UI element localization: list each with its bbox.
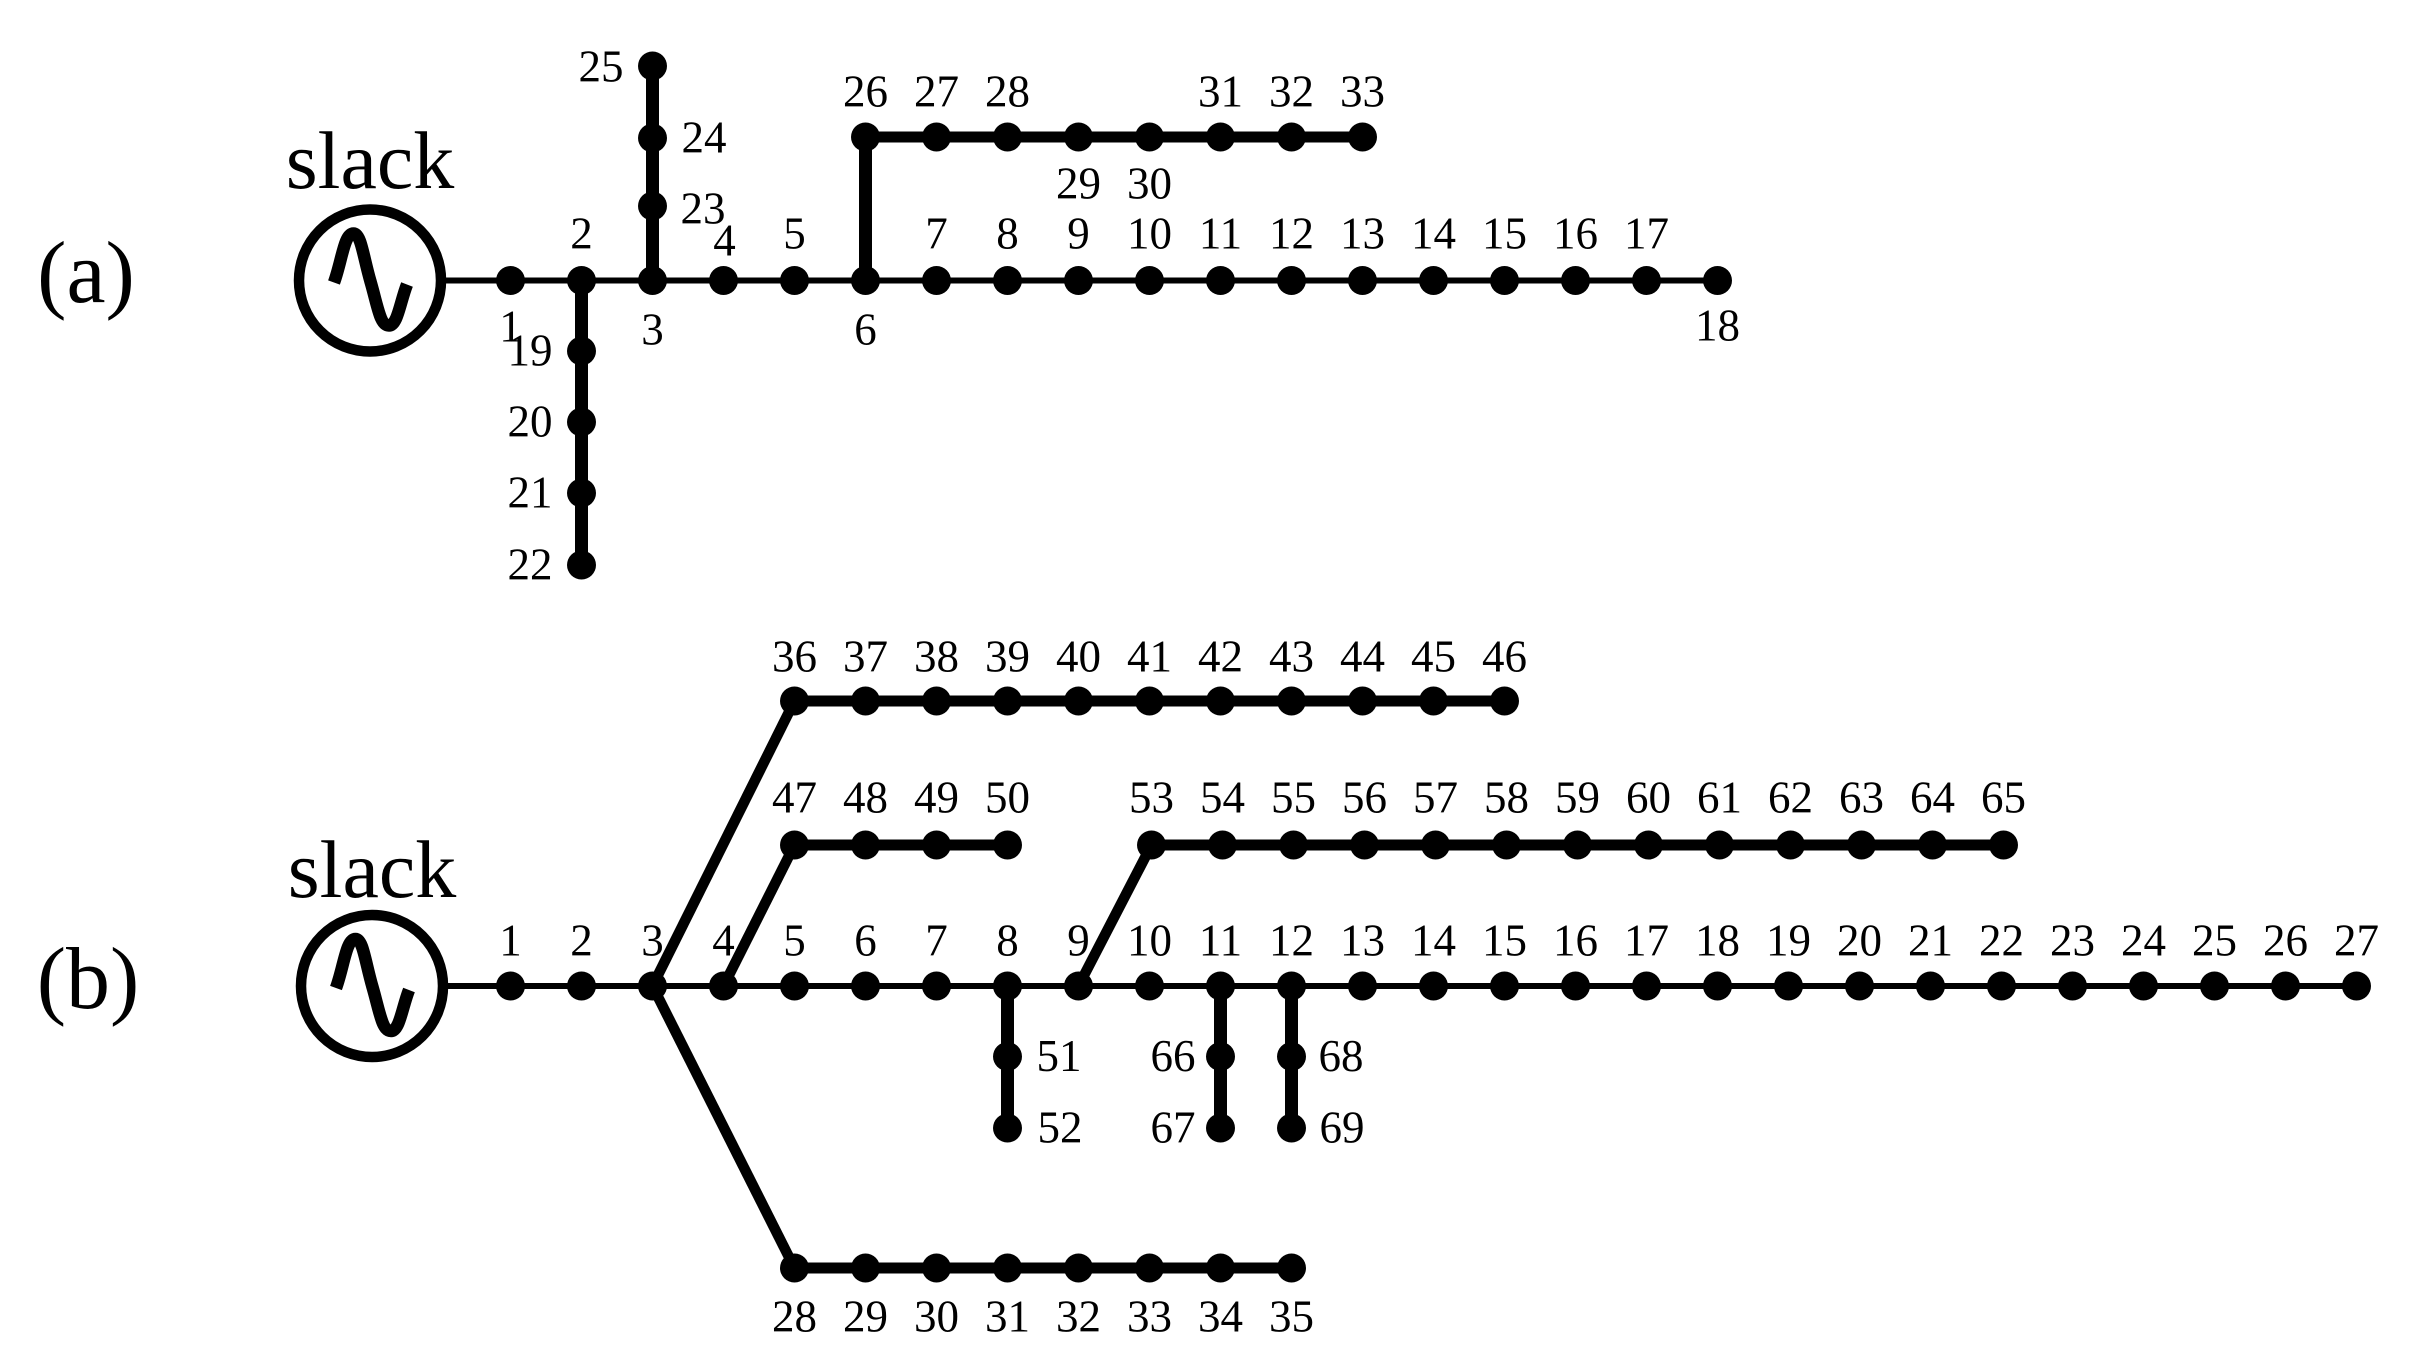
svg-text:6: 6 — [854, 305, 877, 355]
node b49 — [922, 831, 951, 860]
svg-text:65: 65 — [1981, 773, 2026, 823]
svg-text:44: 44 — [1340, 632, 1385, 682]
node b40 — [1064, 687, 1093, 716]
svg-text:19: 19 — [1766, 916, 1811, 966]
svg-text:9: 9 — [1067, 916, 1090, 966]
svg-text:15: 15 — [1482, 209, 1527, 259]
node b53 — [1137, 831, 1166, 860]
svg-text:17: 17 — [1624, 209, 1669, 259]
svg-text:5: 5 — [783, 209, 806, 259]
node b5 — [780, 972, 809, 1001]
node b21 — [1916, 972, 1945, 1001]
svg-text:32: 32 — [1269, 67, 1314, 117]
svg-text:12: 12 — [1269, 916, 1314, 966]
svg-text:37: 37 — [843, 632, 888, 682]
svg-text:slack: slack — [288, 824, 456, 915]
node a2 — [567, 266, 596, 295]
svg-text:63: 63 — [1839, 773, 1884, 823]
node a31 — [1206, 123, 1235, 152]
svg-text:12: 12 — [1269, 209, 1314, 259]
node b58 — [1492, 831, 1521, 860]
node a12 — [1277, 266, 1306, 295]
wire branch 3 up to 25 (a) — [646, 66, 659, 281]
node b68 — [1277, 1042, 1306, 1071]
svg-text:69: 69 — [1320, 1103, 1365, 1153]
svg-text:5: 5 — [783, 916, 806, 966]
wire stub 12-68-69 (b) — [1285, 986, 1298, 1128]
svg-text:16: 16 — [1553, 209, 1598, 259]
node b31 — [993, 1254, 1022, 1283]
svg-text:34: 34 — [1198, 1292, 1243, 1342]
svg-text:47: 47 — [772, 773, 817, 823]
svg-text:25: 25 — [579, 42, 624, 92]
svg-text:60: 60 — [1626, 773, 1671, 823]
node b35 — [1277, 1254, 1306, 1283]
node b26 — [2271, 972, 2300, 1001]
svg-text:38: 38 — [914, 632, 959, 682]
svg-text:58: 58 — [1484, 773, 1529, 823]
node a9 — [1064, 266, 1093, 295]
svg-text:27: 27 — [914, 67, 959, 117]
svg-text:67: 67 — [1151, 1103, 1196, 1153]
node b54 — [1208, 831, 1237, 860]
svg-text:13: 13 — [1340, 916, 1385, 966]
svg-text:45: 45 — [1411, 632, 1456, 682]
wire node 3 to node 36 diagonal (b) — [653, 701, 795, 986]
svg-text:1: 1 — [499, 916, 522, 966]
svg-text:21: 21 — [508, 468, 553, 518]
node b57 — [1421, 831, 1450, 860]
slack source (a) — [299, 210, 441, 352]
node a23 — [638, 192, 667, 221]
wire main feeder 1-18 (a) — [511, 278, 1718, 284]
node b43 — [1277, 687, 1306, 716]
svg-text:41: 41 — [1127, 632, 1172, 682]
svg-text:29: 29 — [843, 1292, 888, 1342]
node b9 — [1064, 972, 1093, 1001]
svg-text:22: 22 — [508, 540, 553, 590]
svg-text:39: 39 — [985, 632, 1030, 682]
node b30 — [922, 1254, 951, 1283]
node a15 — [1490, 266, 1519, 295]
node a16 — [1561, 266, 1590, 295]
svg-text:slack: slack — [286, 115, 454, 206]
node b12 — [1277, 972, 1306, 1001]
wire node 9 to node 53 diagonal (b) — [1079, 845, 1152, 986]
svg-text:11: 11 — [1199, 209, 1242, 259]
svg-text:28: 28 — [772, 1292, 817, 1342]
svg-text:22: 22 — [1979, 916, 2024, 966]
svg-text:14: 14 — [1411, 209, 1456, 259]
node b64 — [1918, 831, 1947, 860]
node b23 — [2058, 972, 2087, 1001]
node a3 — [638, 266, 667, 295]
node b55 — [1279, 831, 1308, 860]
wire branch 28-35 (b) — [795, 1263, 1292, 1274]
node a7 — [922, 266, 951, 295]
node b13 — [1348, 972, 1377, 1001]
svg-text:20: 20 — [508, 397, 553, 447]
node b36 — [780, 687, 809, 716]
node b63 — [1847, 831, 1876, 860]
node b18 — [1703, 972, 1732, 1001]
svg-text:(a): (a) — [37, 225, 135, 322]
node b67 — [1206, 1114, 1235, 1143]
node b15 — [1490, 972, 1519, 1001]
node b22 — [1987, 972, 2016, 1001]
node b7 — [922, 972, 951, 1001]
node a28 — [993, 123, 1022, 152]
node b27 — [2342, 972, 2371, 1001]
node b11 — [1206, 972, 1235, 1001]
node b45 — [1419, 687, 1448, 716]
svg-text:24: 24 — [682, 113, 727, 163]
svg-text:31: 31 — [985, 1292, 1030, 1342]
svg-text:59: 59 — [1555, 773, 1600, 823]
node a10 — [1135, 266, 1164, 295]
node b6 — [851, 972, 880, 1001]
wire node 4 to node 47 diagonal (b) — [724, 845, 795, 986]
svg-text:27: 27 — [2334, 916, 2379, 966]
svg-text:16: 16 — [1553, 916, 1598, 966]
svg-text:25: 25 — [2192, 916, 2237, 966]
wire branch 2 down to 22 (a) — [575, 281, 588, 566]
svg-text:2: 2 — [570, 209, 593, 259]
svg-text:4: 4 — [712, 916, 735, 966]
wire branch 53-65 (b) — [1150, 840, 2002, 851]
svg-text:26: 26 — [2263, 916, 2308, 966]
svg-text:35: 35 — [1269, 1292, 1314, 1342]
node a18 — [1703, 266, 1732, 295]
node a19 — [567, 337, 596, 366]
svg-text:2: 2 — [570, 916, 593, 966]
svg-text:24: 24 — [2121, 916, 2166, 966]
node a17 — [1632, 266, 1661, 295]
svg-text:61: 61 — [1697, 773, 1742, 823]
node b65 — [1989, 831, 2018, 860]
svg-text:64: 64 — [1910, 773, 1955, 823]
node b29 — [851, 1254, 880, 1283]
node a27 — [922, 123, 951, 152]
svg-text:13: 13 — [1340, 209, 1385, 259]
node a5 — [780, 266, 809, 295]
node b2 — [567, 972, 596, 1001]
node b24 — [2129, 972, 2158, 1001]
svg-text:11: 11 — [1199, 916, 1242, 966]
node b61 — [1705, 831, 1734, 860]
svg-text:19: 19 — [508, 326, 553, 376]
svg-text:3: 3 — [641, 916, 664, 966]
svg-text:14: 14 — [1411, 916, 1456, 966]
node a24 — [638, 124, 667, 153]
node b32 — [1064, 1254, 1093, 1283]
svg-text:28: 28 — [985, 67, 1030, 117]
node b41 — [1135, 687, 1164, 716]
svg-text:57: 57 — [1413, 773, 1458, 823]
node b66 — [1206, 1042, 1235, 1071]
wire stub 8-51-52 (b) — [1001, 986, 1014, 1128]
svg-text:7: 7 — [925, 209, 948, 259]
svg-text:18: 18 — [1695, 916, 1740, 966]
node b10 — [1135, 972, 1164, 1001]
wire slack to node 1 (b) — [443, 983, 511, 989]
node a6 — [851, 266, 880, 295]
svg-text:50: 50 — [985, 773, 1030, 823]
node b46 — [1490, 687, 1519, 716]
svg-text:31: 31 — [1198, 67, 1243, 117]
wire branch 6 up to 26 (a) — [859, 137, 872, 281]
svg-text:33: 33 — [1340, 67, 1385, 117]
svg-text:10: 10 — [1127, 916, 1172, 966]
node b42 — [1206, 687, 1235, 716]
node b48 — [851, 831, 880, 860]
svg-text:43: 43 — [1269, 632, 1314, 682]
node a14 — [1419, 266, 1448, 295]
wire main feeder 1-27 (b) — [511, 983, 2357, 989]
node b28 — [780, 1254, 809, 1283]
svg-text:8: 8 — [996, 916, 1019, 966]
svg-text:49: 49 — [914, 773, 959, 823]
svg-text:66: 66 — [1151, 1031, 1196, 1081]
node b39 — [993, 687, 1022, 716]
node b60 — [1634, 831, 1663, 860]
node a32 — [1277, 123, 1306, 152]
svg-text:20: 20 — [1837, 916, 1882, 966]
node b16 — [1561, 972, 1590, 1001]
svg-text:30: 30 — [914, 1292, 959, 1342]
node b34 — [1206, 1254, 1235, 1283]
node a20 — [567, 408, 596, 437]
svg-text:55: 55 — [1271, 773, 1316, 823]
svg-text:23: 23 — [2050, 916, 2095, 966]
node b37 — [851, 687, 880, 716]
svg-text:(b): (b) — [37, 931, 140, 1028]
svg-text:52: 52 — [1038, 1103, 1083, 1153]
svg-text:40: 40 — [1056, 632, 1101, 682]
node b4 — [709, 972, 738, 1001]
node a13 — [1348, 266, 1377, 295]
svg-text:53: 53 — [1129, 773, 1174, 823]
svg-text:46: 46 — [1482, 632, 1527, 682]
node b44 — [1348, 687, 1377, 716]
node a8 — [993, 266, 1022, 295]
node a33 — [1348, 123, 1377, 152]
node b33 — [1135, 1254, 1164, 1283]
node b8 — [993, 972, 1022, 1001]
node b50 — [993, 831, 1022, 860]
node a29 — [1064, 123, 1093, 152]
svg-text:3: 3 — [641, 305, 664, 355]
svg-text:15: 15 — [1482, 916, 1527, 966]
svg-text:48: 48 — [843, 773, 888, 823]
node a30 — [1135, 123, 1164, 152]
svg-text:62: 62 — [1768, 773, 1813, 823]
svg-text:18: 18 — [1695, 301, 1740, 351]
wire node 3 to node 28 diagonal (b) — [653, 986, 795, 1268]
node b38 — [922, 687, 951, 716]
svg-text:32: 32 — [1056, 1292, 1101, 1342]
wire branch 26-33 (a) — [866, 132, 1363, 143]
wire stub 11-66-67 (b) — [1214, 986, 1227, 1128]
node b47 — [780, 831, 809, 860]
node b19 — [1774, 972, 1803, 1001]
svg-text:54: 54 — [1200, 773, 1245, 823]
node a4 — [709, 266, 738, 295]
svg-text:21: 21 — [1908, 916, 1953, 966]
node a25 — [638, 52, 667, 81]
node b25 — [2200, 972, 2229, 1001]
svg-text:17: 17 — [1624, 916, 1669, 966]
wire branch 36-46 (b) — [795, 696, 1505, 707]
node b62 — [1776, 831, 1805, 860]
svg-text:10: 10 — [1127, 209, 1172, 259]
svg-text:51: 51 — [1037, 1031, 1082, 1081]
node b51 — [993, 1042, 1022, 1071]
node b52 — [993, 1114, 1022, 1143]
svg-text:68: 68 — [1319, 1031, 1364, 1081]
svg-text:23: 23 — [681, 184, 726, 234]
svg-text:30: 30 — [1127, 159, 1172, 209]
svg-text:6: 6 — [854, 916, 877, 966]
svg-text:36: 36 — [772, 632, 817, 682]
node b59 — [1563, 831, 1592, 860]
svg-text:9: 9 — [1067, 209, 1090, 259]
node a1 — [496, 266, 525, 295]
node a21 — [567, 479, 596, 508]
wire slack to node 1 (a) — [441, 278, 511, 284]
node a11 — [1206, 266, 1235, 295]
node b17 — [1632, 972, 1661, 1001]
svg-text:42: 42 — [1198, 632, 1243, 682]
svg-text:26: 26 — [843, 67, 888, 117]
svg-text:29: 29 — [1056, 159, 1101, 209]
node b69 — [1277, 1114, 1306, 1143]
node b56 — [1350, 831, 1379, 860]
svg-text:8: 8 — [996, 209, 1019, 259]
node b14 — [1419, 972, 1448, 1001]
node a26 — [851, 123, 880, 152]
node b20 — [1845, 972, 1874, 1001]
node b1 — [496, 972, 525, 1001]
svg-text:7: 7 — [925, 916, 948, 966]
wire branch 47-50 (b) — [795, 840, 1008, 851]
svg-text:33: 33 — [1127, 1292, 1172, 1342]
node b3 — [638, 972, 667, 1001]
node a22 — [567, 551, 596, 580]
slack source (b) — [301, 915, 443, 1057]
svg-text:56: 56 — [1342, 773, 1387, 823]
